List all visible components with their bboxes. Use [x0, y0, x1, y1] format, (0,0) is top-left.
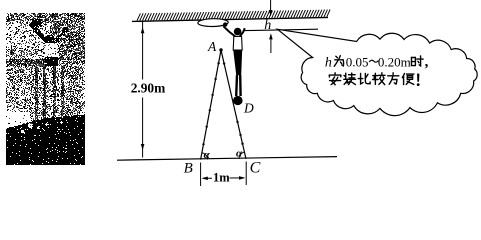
svg-text:h: h [264, 18, 271, 33]
bubble text line 2 [329, 73, 419, 86]
1m dimension [201, 162, 247, 187]
angle arc at C [239, 152, 244, 159]
ceiling line [132, 17, 328, 21]
photo: worker on ladder (halftone) [6, 14, 85, 126]
person on ladder [223, 22, 245, 105]
svg-text:0.20m: 0.20m [378, 54, 411, 69]
ladder leg AB [201, 50, 221, 160]
svg-text:B: B [184, 160, 193, 176]
rung dots on leg AC [223, 62, 244, 145]
2.90m dimension line [131, 21, 166, 158]
svg-text:A: A [207, 39, 217, 54]
angle arc at B [202, 153, 208, 160]
ground line [117, 157, 337, 161]
svg-text:C: C [250, 160, 261, 177]
svg-text:h: h [325, 55, 332, 70]
svg-text:D: D [243, 101, 254, 116]
ceiling hatch [137, 10, 330, 21]
rung dots on leg AB [202, 62, 220, 146]
ladder leg AC [221, 50, 246, 159]
svg-text:α: α [236, 148, 243, 160]
h dimension [264, 0, 272, 53]
svg-text:1m: 1m [213, 170, 230, 184]
reach line (hand height) [245, 29, 319, 30]
apex dot A [219, 48, 222, 51]
svg-text:2.90m: 2.90m [131, 81, 166, 96]
svg-text:0.05: 0.05 [346, 54, 369, 69]
svg-text:,: , [425, 54, 429, 70]
bubble text line 1 [325, 54, 429, 70]
speech bubble cloud with tail [278, 29, 478, 115]
svg-text:α: α [204, 149, 211, 161]
lamp ellipse on ceiling [198, 18, 229, 26]
